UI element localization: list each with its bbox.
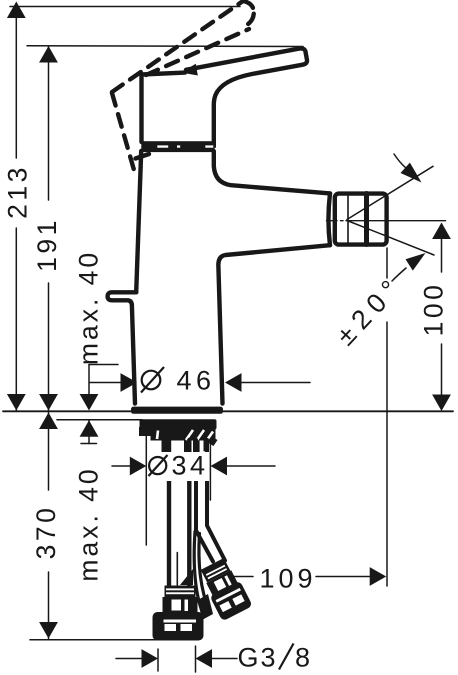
svg-text:213: 213 [3, 164, 33, 219]
svg-text:max. 40: max. 40 [74, 250, 104, 365]
svg-text:46: 46 [177, 366, 216, 396]
svg-text:191: 191 [32, 217, 62, 272]
svg-text:370: 370 [31, 505, 61, 560]
svg-text:3: 3 [261, 643, 280, 673]
svg-text:max. 40: max. 40 [74, 466, 104, 581]
svg-text:8: 8 [295, 643, 314, 673]
svg-text:100: 100 [419, 282, 449, 337]
svg-text:34: 34 [172, 451, 209, 481]
svg-text:109: 109 [260, 564, 317, 594]
svg-text:G: G [238, 643, 263, 673]
